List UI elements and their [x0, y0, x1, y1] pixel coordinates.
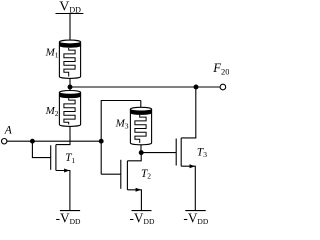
transistor T3 channel: [180, 138, 182, 166]
transistor T3 source wire: [181, 166, 195, 210]
negative rail bar 2: [132, 210, 152, 212]
transistor T1 gate bar: [50, 145, 52, 170]
output terminal F20: [220, 84, 226, 90]
wire VDD to M1: [69, 14, 71, 43]
negative rail bar 3: [185, 210, 205, 212]
wire T2 gate: [101, 173, 121, 175]
input terminal A: [1, 139, 6, 144]
negative rail bar 1: [60, 210, 80, 212]
transistor T1 channel: [55, 145, 57, 171]
wire node N2 to T3 gate: [141, 152, 176, 154]
transistor T2 channel: [126, 161, 128, 190]
wire node N1 to F20 output: [70, 86, 220, 88]
transistor T2 drain wire: [127, 153, 141, 161]
transistor T3 drain wire: [181, 87, 196, 138]
junction on A wire (T1 gate tap): [30, 139, 35, 144]
transistor T2 source wire: [127, 190, 141, 211]
junction node N1 (M1/M2/F): [68, 85, 73, 90]
wire input A: [7, 140, 101, 142]
wire A tap to T1 gate: [32, 141, 50, 157]
transistor T1 source arrow: [64, 169, 70, 173]
junction node F (output): [194, 85, 199, 90]
transistor T2 gate bar: [120, 160, 122, 189]
junction node B (A / M3 / T2 gate): [99, 139, 104, 144]
wire M2 bottom to T1 drain: [56, 126, 70, 145]
transistor T2 source arrow: [136, 188, 142, 192]
memristor M3: [130, 107, 151, 144]
wire M3 top stem: [140, 101, 142, 109]
memristor M2: [59, 91, 80, 127]
wire node N1 to M2 top: [69, 87, 71, 92]
junction node N2 (M3 bottom / T2 drain / T3 gate): [139, 150, 144, 155]
power rail VDD bar: [56, 13, 84, 15]
transistor T1 source wire: [56, 171, 70, 211]
transistor T3 source arrow: [190, 164, 196, 168]
memristor M1: [59, 40, 80, 78]
svg-text:A: A: [4, 125, 13, 137]
wire M3 bottom to node N2: [140, 144, 142, 153]
node B vertical (A to M3/T2 gate): [101, 101, 141, 175]
wire M1 bottom to node N1: [69, 78, 71, 89]
transistor T3 gate bar: [175, 139, 177, 166]
